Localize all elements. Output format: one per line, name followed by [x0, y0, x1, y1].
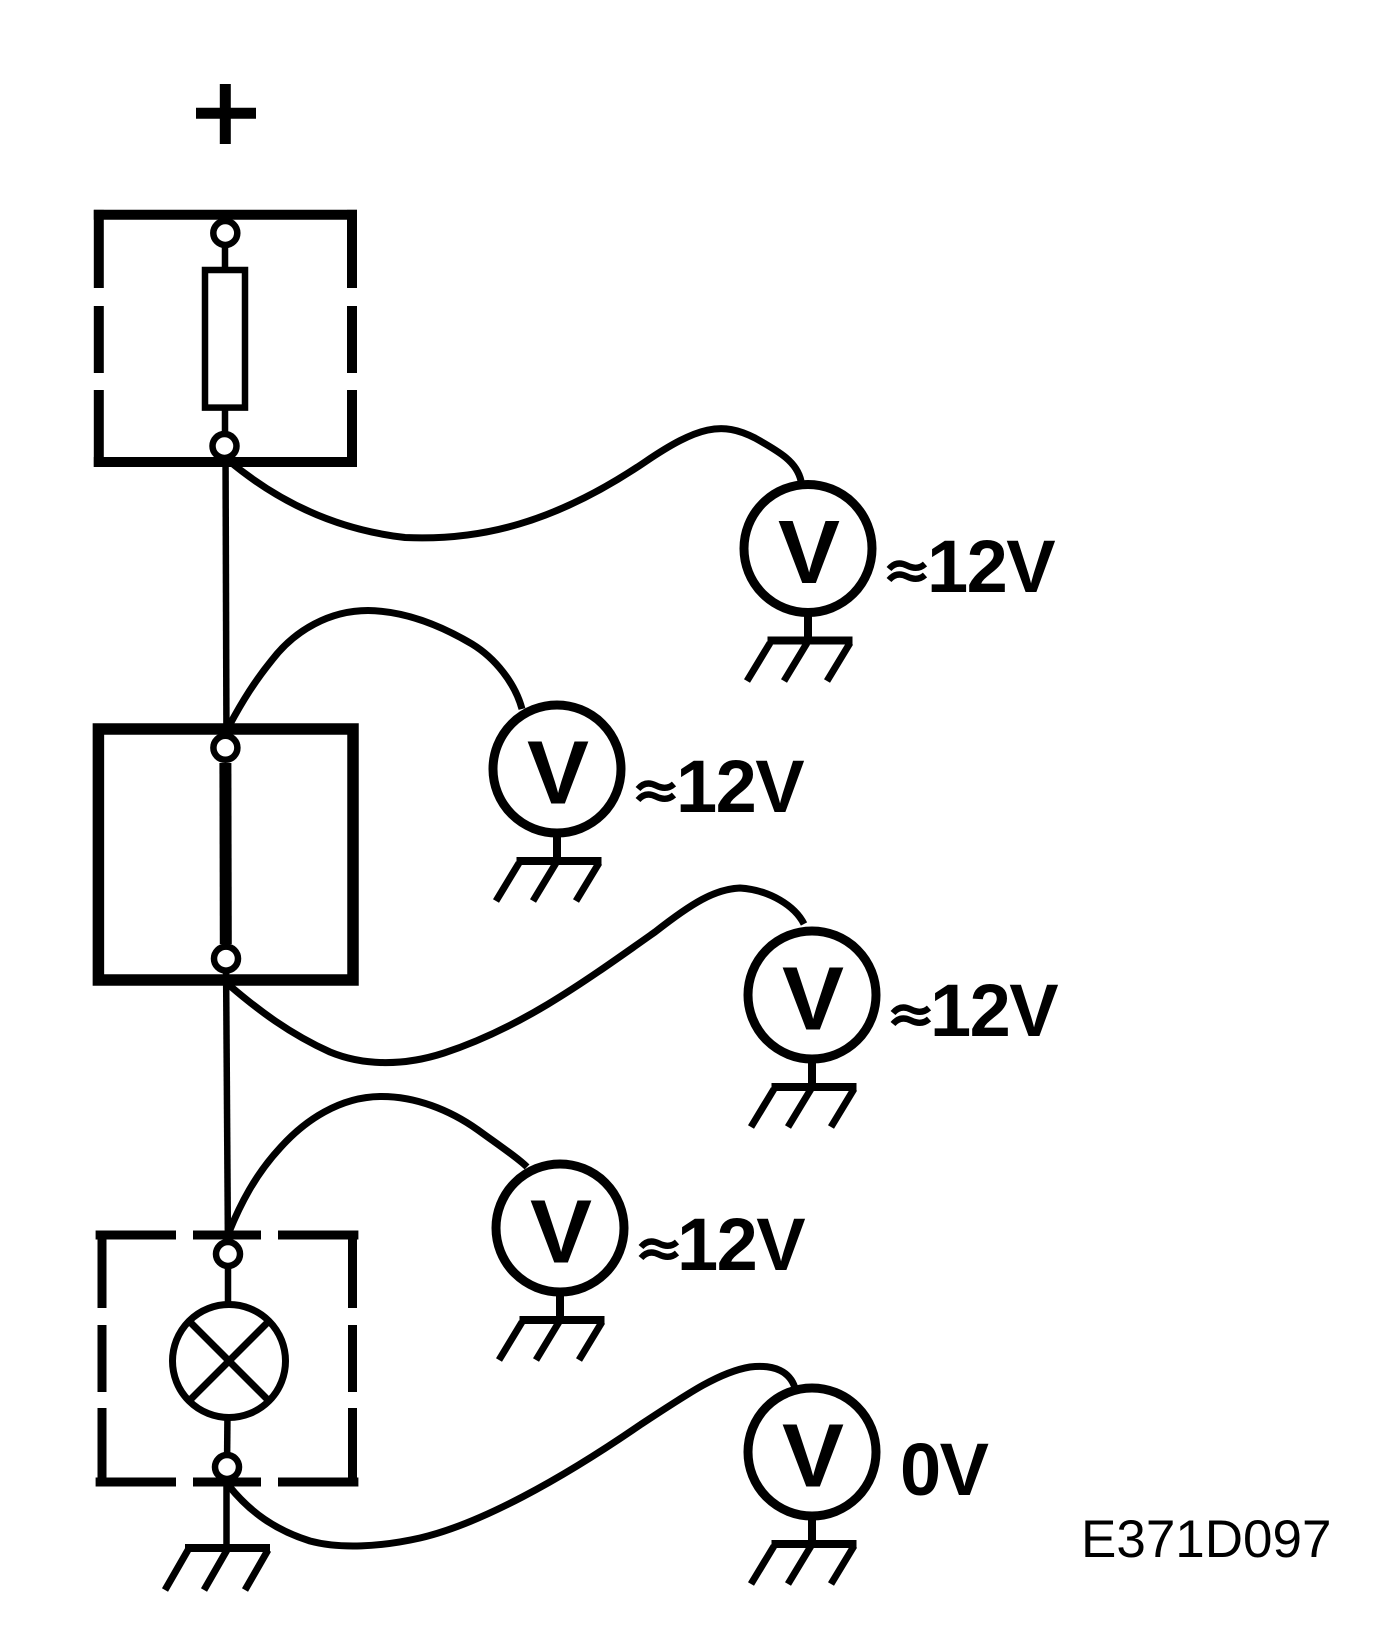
voltmeter V2	[493, 705, 621, 833]
svg-text:V: V	[782, 950, 844, 1050]
wire main vertical from switch box to lamp box	[226, 958, 228, 1254]
fuse box (dashed component box)	[94, 210, 357, 467]
svg-text:V: V	[778, 503, 840, 603]
ground (voltmeter V1)	[747, 614, 853, 681]
lamp box (dashed component box)	[96, 1231, 359, 1486]
switch contact bar	[219, 763, 231, 944]
ground (voltmeter V3)	[751, 1061, 857, 1127]
wire to voltmeter V2	[229, 611, 522, 727]
battery positive terminal +	[196, 84, 256, 144]
ground (voltmeter V4)	[499, 1294, 605, 1360]
terminal circle fuse bottom	[213, 434, 237, 458]
ground (voltmeter V2)	[496, 835, 602, 901]
svg-text:0V: 0V	[900, 1428, 989, 1511]
voltmeter V5	[748, 1388, 876, 1516]
svg-text:12V: 12V	[927, 525, 1055, 608]
label V3 approx 12V	[893, 1007, 929, 1024]
label V4 approx 12V	[641, 1241, 677, 1258]
svg-text:12V: 12V	[676, 745, 804, 828]
fuse element (resistor body)	[205, 270, 245, 408]
voltmeter V1	[744, 485, 872, 613]
wire main ground stem	[223, 1467, 230, 1550]
terminal circle switch top	[213, 736, 237, 760]
label V1 approx 12V	[889, 563, 925, 580]
wire to voltmeter V5	[229, 1366, 795, 1546]
voltmeter V3	[748, 931, 876, 1059]
terminal circle lamp top	[216, 1242, 240, 1266]
svg-text:E371D097: E371D097	[1081, 1510, 1331, 1569]
label V2 approx 12V	[638, 783, 674, 800]
wire lamp stub bottom	[224, 1412, 231, 1467]
wire stub fuse bottom	[222, 407, 229, 446]
terminal circle lamp bottom	[215, 1455, 239, 1479]
svg-text:V: V	[527, 724, 589, 824]
wire stub fuse top	[222, 233, 229, 270]
wire to voltmeter V4	[229, 1096, 527, 1232]
terminal circle switch bottom	[214, 947, 238, 971]
wire main vertical from fuse box to switch box	[226, 446, 227, 748]
voltmeter V4	[496, 1164, 624, 1292]
lamp (circle with X)	[173, 1305, 286, 1418]
ground (voltmeter V5)	[751, 1518, 857, 1584]
svg-text:12V: 12V	[930, 969, 1058, 1052]
svg-text:12V: 12V	[677, 1203, 805, 1286]
svg-text:V: V	[530, 1183, 592, 1283]
wire to voltmeter V3	[229, 888, 804, 1063]
wire to voltmeter V1	[228, 429, 801, 538]
ground (main, below lamp box)	[165, 1548, 270, 1590]
svg-text:V: V	[782, 1407, 844, 1507]
wire lamp stub top	[225, 1254, 232, 1310]
terminal circle fuse top	[213, 221, 237, 245]
switch box (solid component box)	[98, 729, 353, 980]
